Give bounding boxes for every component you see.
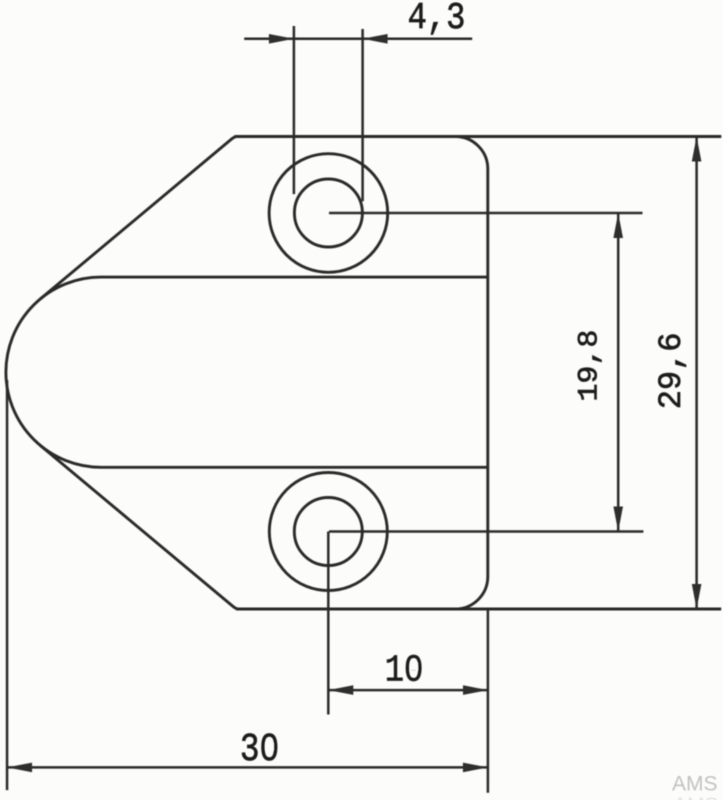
- dim 4,3 left arrow: [269, 34, 294, 44]
- bottom hole outer circle: [269, 473, 387, 591]
- dim 29,6 dimension line: [695, 137, 698, 610]
- dim 4,3 left extension line: [293, 26, 296, 194]
- right edge lower extension line (10 + 30 right ext): [487, 609, 490, 793]
- dim 29,6 bottom arrow: [692, 584, 702, 609]
- bottom hole centerline down (10 left ext): [327, 532, 330, 715]
- svg-text:4,3: 4,3: [408, 0, 466, 40]
- dim 30 dimension line: [7, 766, 488, 769]
- svg-text:AMS: AMS: [672, 773, 718, 796]
- dim 19,8 dimension line: [617, 213, 620, 532]
- dim 10 left arrow: [328, 685, 353, 695]
- bottom hole inner circle: [294, 498, 362, 566]
- bottom-left chamfer diagonal: [40, 445, 239, 609]
- bottom-right corner: [455, 577, 488, 610]
- dim 4,3 right arrow: [363, 34, 388, 44]
- dim 10 right arrow: [463, 685, 488, 695]
- mask dot of zero in "10": [411, 663, 418, 671]
- dim 30 right arrow: [463, 763, 488, 773]
- top edge + 29.6 top extension line: [235, 135, 722, 138]
- top-left chamfer diagonal: [40, 137, 237, 300]
- dim 30 left extension line: [6, 380, 9, 790]
- dim 30 left arrow: [7, 763, 32, 773]
- top hole centerline right (19.8 top ext): [329, 212, 643, 215]
- bottom hole centerline right (19.8 bottom ext): [329, 530, 643, 533]
- top-right corner: [455, 137, 488, 170]
- top hole inner circle: [294, 179, 362, 247]
- dim 29,6 top arrow: [692, 137, 702, 162]
- mask dot of zero in "30": [266, 743, 274, 751]
- svg-text:10: 10: [385, 649, 424, 692]
- dim 4,3 dimension line: [244, 38, 472, 41]
- top hole outer circle: [269, 154, 388, 273]
- lower waist line: [101, 466, 488, 469]
- right edge: [486, 169, 489, 577]
- svg-text:29,6: 29,6: [653, 332, 690, 409]
- dim 10 dimension line: [328, 689, 488, 692]
- upper waist line: [101, 276, 488, 279]
- dim 19,8 bottom arrow: [613, 507, 623, 532]
- left arc (big circle left half): [6, 277, 101, 467]
- dim 19,8 top arrow: [613, 213, 623, 238]
- svg-text:19,8: 19,8: [573, 330, 605, 402]
- dim 4,3 right extension line: [361, 29, 364, 201]
- bottom edge + 29.6 bottom extension line: [236, 608, 721, 611]
